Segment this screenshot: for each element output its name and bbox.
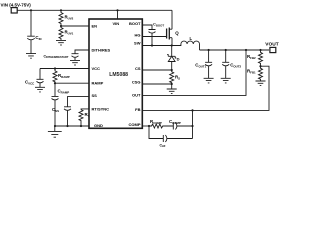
svg-text:RUV2: RUV2 <box>65 15 74 21</box>
capacitor C_HF <box>149 126 193 148</box>
svg-text:RFB2: RFB2 <box>247 54 256 60</box>
svg-text:CHF: CHF <box>160 143 166 147</box>
svg-text:CCOMP: CCOMP <box>169 119 181 125</box>
ground (C_OUT2) <box>221 78 231 83</box>
wire source to SW <box>171 38 173 46</box>
svg-text:CIN: CIN <box>35 35 41 41</box>
wire CSG <box>142 83 171 85</box>
wire HG to gate <box>142 36 166 38</box>
svg-text:CSG: CSG <box>132 80 141 85</box>
svg-text:RAMP: RAMP <box>92 81 104 86</box>
wire RAMP <box>55 82 89 84</box>
capacitor C_BOOT <box>149 22 165 46</box>
svg-text:CS: CS <box>135 66 141 71</box>
node SW junction <box>171 44 173 46</box>
resistor R_RAMP <box>53 69 70 84</box>
node C_SS gnd <box>66 125 68 127</box>
resistor R_UV2 <box>59 10 74 26</box>
wire comp net to FB <box>192 110 194 126</box>
node EN <box>60 25 62 27</box>
svg-text:CSS: CSS <box>52 107 59 113</box>
output terminal <box>270 47 276 52</box>
resistor R_FB1 <box>247 66 263 81</box>
svg-text:L: L <box>190 36 193 41</box>
svg-text:COMP: COMP <box>129 122 141 127</box>
node C_BOOT / SW <box>151 44 153 46</box>
capacitor C_IN <box>27 10 41 53</box>
svg-text:RT/SYNC: RT/SYNC <box>92 106 110 111</box>
node C_RAMP gnd <box>54 125 56 127</box>
svg-text:GND: GND <box>94 123 103 128</box>
svg-text:COUT1: COUT1 <box>195 62 206 68</box>
node C_OUT2 <box>225 49 227 51</box>
input terminal <box>11 8 17 13</box>
svg-text:SW: SW <box>134 41 141 46</box>
resistor R_FB2 <box>247 50 263 66</box>
ground (R_UV1) <box>56 40 66 45</box>
node C_OUT1 <box>208 49 210 51</box>
resistor R_UV1 <box>59 26 74 40</box>
capacitor C_VCC <box>25 69 44 88</box>
svg-text:CVCC: CVCC <box>25 80 35 86</box>
svg-text:CBOOT: CBOOT <box>153 22 164 28</box>
inductor L <box>172 36 200 50</box>
ground (C_DITHER/RESTART) <box>70 60 80 65</box>
node CS <box>171 69 173 71</box>
wire FB <box>142 66 269 110</box>
wire CS <box>142 69 171 71</box>
wire SS <box>68 97 90 107</box>
capacitor C_COMP <box>165 119 193 130</box>
svg-text:Q: Q <box>175 30 179 35</box>
svg-text:CRAMP: CRAMP <box>58 89 70 95</box>
node FB tap <box>259 65 261 67</box>
capacitor C_OUT1 <box>195 50 212 78</box>
ground (GND rail) <box>48 126 62 137</box>
svg-text:RCOMP: RCOMP <box>150 119 162 125</box>
svg-text:CDITHER/RESTART: CDITHER/RESTART <box>44 54 69 59</box>
IC U1 LM5088 body <box>89 19 142 128</box>
node R_UV2 tap <box>60 9 62 11</box>
node RAMP <box>54 82 56 84</box>
svg-text:RUV1: RUV1 <box>65 30 74 36</box>
wire GND rail <box>55 125 89 127</box>
wire top input rail <box>17 9 172 11</box>
capacitor C_RAMP <box>52 83 70 126</box>
wire SW node to diode <box>171 46 173 57</box>
svg-text:VOUT: VOUT <box>265 42 278 48</box>
diode D (schottky) <box>167 55 180 70</box>
wire drain to VIN rail <box>171 10 173 29</box>
node R_FB2 top <box>259 49 261 51</box>
ground (C_OUT1) <box>204 78 214 83</box>
wire EN <box>61 25 89 27</box>
svg-text:FB: FB <box>135 107 140 112</box>
ground (C_IN) <box>26 54 36 59</box>
wire COMP <box>142 125 149 127</box>
resistor R_T <box>79 110 90 126</box>
wire RT/SYNC <box>81 108 89 111</box>
capacitor C_SS <box>52 107 71 126</box>
svg-text:EN: EN <box>92 23 98 28</box>
svg-text:VIN (4.5V-75V): VIN (4.5V-75V) <box>1 2 32 7</box>
wire DITH/RES <box>75 50 89 54</box>
svg-text:RS: RS <box>175 75 180 81</box>
node C_IN tap <box>30 9 32 11</box>
resistor R_COMP <box>149 119 165 128</box>
svg-text:LM5088: LM5088 <box>109 72 128 78</box>
wire OUT <box>142 50 246 95</box>
wire VCC <box>40 68 89 70</box>
wire output rail <box>200 49 270 51</box>
node OUT sense <box>245 49 247 51</box>
svg-text:D: D <box>177 57 180 62</box>
node R_T gnd <box>80 125 82 127</box>
ground (RS) <box>167 84 177 94</box>
svg-text:SS: SS <box>92 93 98 98</box>
svg-text:HG: HG <box>135 32 141 37</box>
capacitor C_DITHER/RESTART <box>44 54 79 61</box>
resistor RS <box>170 70 180 84</box>
svg-text:RRAMP: RRAMP <box>58 73 70 79</box>
node comp net right <box>191 125 193 127</box>
svg-text:RFB1: RFB1 <box>247 68 256 74</box>
svg-text:OUT: OUT <box>132 92 141 97</box>
svg-text:VIN: VIN <box>113 21 120 26</box>
wire BOOT <box>142 25 152 30</box>
node VIN pin tap <box>116 9 118 11</box>
ground (C_VCC) <box>35 87 45 92</box>
svg-text:BOOT: BOOT <box>129 21 141 26</box>
svg-text:COUT2: COUT2 <box>230 62 241 68</box>
wire SW <box>142 45 171 47</box>
node FB junction <box>191 109 193 111</box>
svg-text:VCC: VCC <box>92 66 101 71</box>
transistor Q <box>167 28 180 40</box>
svg-text:DITH/RES: DITH/RES <box>92 48 111 53</box>
capacitor C_OUT2 <box>222 50 241 78</box>
node CSG <box>171 83 173 85</box>
ground (R_FB1) <box>256 81 266 86</box>
wire VIN pin <box>117 10 119 19</box>
node VCC / R_RAMP top <box>54 67 56 69</box>
node COMP <box>148 125 150 127</box>
